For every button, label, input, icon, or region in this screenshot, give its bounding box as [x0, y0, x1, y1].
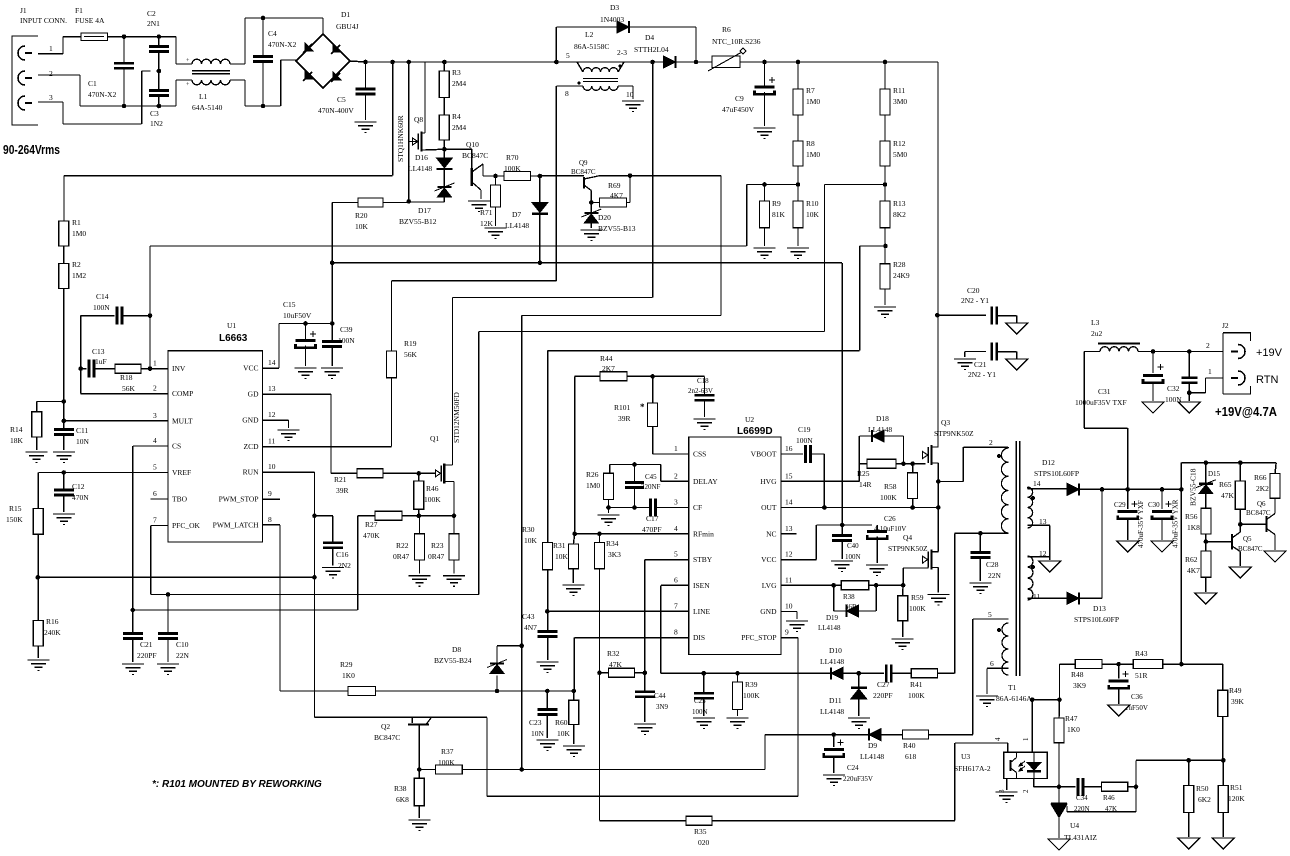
ground: [1178, 838, 1200, 849]
wire VCC U2: [781, 525, 872, 560]
wire GD pin: [263, 394, 332, 473]
inductor L2: [556, 30, 656, 99]
svg-text:ZCD: ZCD: [244, 442, 260, 451]
ground: [1151, 541, 1173, 552]
svg-text:DIS: DIS: [693, 633, 705, 642]
svg-text:R20: R20: [355, 211, 368, 220]
wire CS pin: [130, 446, 357, 612]
svg-text:1: 1: [1022, 737, 1030, 741]
svg-text:R28: R28: [893, 260, 906, 269]
pin TBO stub: [151, 498, 169, 500]
diode D10: [820, 646, 859, 679]
svg-text:39R: 39R: [618, 414, 631, 423]
wire R43 rail: [1102, 662, 1223, 667]
resistor R15: [6, 504, 43, 577]
svg-text:1M2: 1M2: [72, 271, 86, 280]
svg-text:R62: R62: [1185, 555, 1198, 564]
svg-text:2-3: 2-3: [617, 48, 627, 57]
svg-text:470N-X2: 470N-X2: [268, 40, 297, 49]
svg-text:C30: C30: [1148, 501, 1160, 509]
resistor R49: [1218, 664, 1245, 760]
svg-text:L3: L3: [1091, 318, 1100, 327]
wire aux pin5 supply: [929, 619, 1009, 735]
svg-text:1K0: 1K0: [1067, 725, 1080, 734]
svg-text:TBO: TBO: [172, 495, 188, 504]
svg-text:R46: R46: [426, 484, 439, 493]
wire PWM latch drop: [519, 316, 524, 772]
wire ISEN: [661, 585, 830, 675]
svg-text:BC847C: BC847C: [1238, 545, 1263, 553]
capacitor C24: [824, 735, 873, 783]
svg-text:R6: R6: [722, 25, 731, 34]
svg-text:F1: F1: [75, 6, 83, 15]
node VCC rail U1: [279, 321, 335, 326]
svg-text:L6699D: L6699D: [737, 426, 773, 437]
capacitor C17: [642, 499, 689, 535]
ground: [954, 359, 976, 370]
svg-text:1: 1: [153, 359, 157, 368]
svg-text:470N-X2: 470N-X2: [88, 90, 117, 99]
resistor R18: [115, 364, 168, 393]
svg-text:100K: 100K: [743, 691, 760, 700]
svg-text:PFC_OK: PFC_OK: [172, 521, 201, 530]
resistor R70: [489, 153, 540, 181]
ground: [976, 696, 998, 707]
resistor R29: [340, 660, 497, 696]
svg-text:C23: C23: [529, 718, 542, 727]
resistor R50: [1184, 760, 1211, 837]
svg-text:D10: D10: [829, 646, 842, 655]
resistor R8: [793, 115, 820, 185]
svg-text:2: 2: [1206, 341, 1210, 350]
svg-text:R49: R49: [1229, 686, 1242, 695]
diode D11: [820, 671, 867, 716]
svg-text:R25: R25: [857, 469, 870, 478]
resistor R11: [880, 62, 907, 115]
svg-text:R19: R19: [404, 339, 417, 348]
svg-text:3: 3: [49, 93, 53, 102]
ground: [53, 452, 75, 463]
svg-text:VCC: VCC: [243, 364, 258, 373]
resistor R38 lvg: [841, 581, 868, 611]
resistor R38 q2: [394, 770, 424, 819]
svg-text:R56: R56: [1185, 512, 1198, 521]
svg-text:L2: L2: [585, 30, 594, 39]
ground: [848, 718, 870, 729]
resistor R41: [908, 669, 955, 700]
capacitor C29: [1114, 489, 1145, 548]
node Q8 source junction: [442, 147, 472, 152]
svg-text:020: 020: [698, 838, 710, 847]
svg-text:SFH617A-2: SFH617A-2: [954, 764, 991, 773]
svg-text:1M0: 1M0: [586, 481, 600, 490]
svg-text:STPS10L60FP: STPS10L60FP: [1034, 469, 1079, 478]
svg-text:12: 12: [268, 410, 276, 419]
svg-text:C18: C18: [697, 377, 709, 385]
svg-text:GND: GND: [242, 416, 259, 425]
node CS sense line: [402, 514, 454, 519]
ground: [295, 368, 317, 379]
svg-text:24K9: 24K9: [893, 271, 910, 280]
transformer T1 sec top: [1028, 479, 1047, 528]
resistor R34: [595, 534, 622, 821]
svg-text:12K: 12K: [480, 219, 494, 228]
svg-text:BZV55-B13: BZV55-B13: [598, 224, 636, 233]
wire J1 pin3 earth: [38, 71, 151, 124]
svg-text:C16: C16: [336, 550, 349, 559]
svg-text:RTN: RTN: [1256, 374, 1278, 386]
ground: [409, 576, 431, 587]
svg-text:R38: R38: [843, 593, 855, 601]
zener D15: [1189, 463, 1221, 508]
shunt U4 TL431: [1051, 787, 1136, 842]
ground: [1142, 402, 1164, 413]
svg-text:R21: R21: [334, 475, 347, 484]
svg-text:R40: R40: [903, 741, 916, 750]
resistor R3: [439, 62, 466, 98]
svg-text:Q6: Q6: [1257, 500, 1266, 508]
svg-text:C5: C5: [337, 95, 346, 104]
svg-text:220PF: 220PF: [873, 691, 893, 700]
svg-text:4-10uF10V: 4-10uF10V: [874, 525, 906, 533]
svg-text:64A-5140: 64A-5140: [192, 103, 223, 112]
wire COMP feedback: [81, 316, 168, 394]
svg-text:T1: T1: [1008, 683, 1017, 692]
transistor Q10: [462, 140, 489, 199]
svg-text:47K: 47K: [1221, 491, 1235, 500]
svg-text:39R: 39R: [336, 486, 349, 495]
svg-text:C12: C12: [72, 482, 85, 491]
ground: [1195, 593, 1217, 604]
svg-text:10K: 10K: [355, 222, 369, 231]
svg-text:GBU4J: GBU4J: [336, 22, 359, 31]
wire HVG: [781, 464, 859, 482]
resistor R101: [614, 374, 689, 454]
diode D4: [634, 33, 676, 68]
svg-text:D11: D11: [829, 696, 842, 705]
diode D12: [1028, 458, 1103, 495]
svg-text:C10: C10: [176, 640, 189, 649]
svg-text:R23: R23: [431, 541, 444, 550]
svg-text:R3: R3: [452, 68, 461, 77]
svg-text:0R47: 0R47: [428, 552, 445, 561]
svg-text:10: 10: [268, 462, 276, 471]
svg-text:ISEN: ISEN: [693, 581, 710, 590]
svg-text:INV: INV: [172, 364, 186, 373]
svg-text:470N-400V: 470N-400V: [318, 106, 354, 115]
wire Q1 drain path: [522, 176, 721, 316]
capacitor C36: [1109, 664, 1148, 712]
capacitor C14: [81, 292, 153, 325]
wire primary jog: [938, 447, 1008, 481]
svg-text:D12: D12: [1042, 458, 1055, 467]
svg-text:6: 6: [153, 489, 157, 498]
ground: [27, 660, 49, 671]
svg-text:C36: C36: [1131, 693, 1143, 701]
svg-text:BZV55-B24: BZV55-B24: [434, 656, 472, 665]
wire rail sense drop: [64, 62, 393, 221]
svg-text:LL4148: LL4148: [505, 221, 529, 230]
svg-text:C1: C1: [88, 79, 97, 88]
svg-text:COMP: COMP: [172, 389, 193, 398]
svg-text:LL4148: LL4148: [820, 657, 844, 666]
svg-text:C21: C21: [140, 640, 153, 649]
ground: [598, 515, 620, 526]
resistor R13: [880, 185, 906, 247]
svg-text:11: 11: [785, 575, 792, 584]
wire GND pin U2: [781, 612, 797, 620]
svg-text:14R: 14R: [859, 480, 872, 489]
svg-text:R8: R8: [806, 139, 815, 148]
svg-text:C43: C43: [522, 612, 535, 621]
ground: [1039, 561, 1061, 572]
resistor R22: [393, 516, 425, 574]
svg-text:R9: R9: [772, 199, 781, 208]
wire Q8 bias drop: [407, 62, 412, 204]
capacitor C27: [859, 664, 912, 700]
svg-text:0R47: 0R47: [393, 552, 410, 561]
wire STBY: [643, 560, 689, 692]
svg-text:2: 2: [989, 438, 993, 447]
svg-text:2K2: 2K2: [1256, 484, 1269, 493]
svg-text:C26: C26: [884, 515, 896, 523]
svg-text:100K: 100K: [504, 164, 521, 173]
svg-text:C29: C29: [1114, 501, 1126, 509]
capacitor C44: [635, 692, 669, 722]
ground: [1048, 839, 1070, 850]
svg-text:1uF: 1uF: [95, 357, 107, 366]
transistor Q2: [374, 717, 431, 769]
resistor R10: [793, 185, 820, 247]
svg-text:C20: C20: [967, 286, 980, 295]
capacitor C10 pfc: [158, 595, 190, 663]
svg-text:R43: R43: [1135, 649, 1148, 658]
wire GND pin U1: [263, 420, 289, 428]
svg-text:90-264Vrms: 90-264Vrms: [3, 143, 60, 157]
node main DC rail: [363, 60, 938, 65]
wire Q9 base line: [540, 175, 584, 177]
capacitor C25: [692, 673, 714, 716]
node Q5 base: [1204, 539, 1232, 544]
svg-text:618: 618: [905, 752, 917, 761]
transformer T1 primary: [989, 438, 1009, 533]
svg-text:1M0: 1M0: [806, 97, 820, 106]
capacitor C28: [970, 531, 1001, 581]
capacitor C3: [149, 71, 169, 128]
svg-text:PWM_LATCH: PWM_LATCH: [213, 520, 259, 529]
svg-text:C17: C17: [646, 514, 659, 523]
svg-text:R4: R4: [452, 112, 461, 121]
transistor Q8: [396, 62, 444, 162]
svg-text:1K0: 1K0: [342, 671, 355, 680]
svg-text:BC847C: BC847C: [462, 151, 488, 160]
capacitor C2: [147, 9, 169, 73]
connector J2: [1222, 321, 1251, 394]
ground: [485, 228, 507, 239]
wire ZCD: [263, 378, 392, 447]
svg-text:C45: C45: [645, 473, 657, 481]
wire R29 line: [280, 690, 348, 692]
svg-text:220NF: 220NF: [641, 483, 661, 491]
wire output rail: [1138, 341, 1223, 354]
svg-text:47K: 47K: [609, 660, 623, 669]
capacitor C20: [938, 286, 1017, 325]
wire R20 node: [409, 201, 445, 203]
svg-text:R14: R14: [10, 425, 23, 434]
svg-text:STBY: STBY: [693, 555, 713, 564]
svg-text:STPS10L60FP: STPS10L60FP: [1074, 615, 1119, 624]
svg-text:R31: R31: [553, 541, 566, 550]
svg-text:CF: CF: [693, 503, 702, 512]
diode D9: [860, 729, 903, 761]
svg-text:100N: 100N: [93, 303, 110, 312]
svg-text:10N: 10N: [531, 729, 545, 738]
wire rail to Q3 drain: [935, 62, 940, 447]
svg-text:56K: 56K: [404, 350, 418, 359]
svg-text:C21: C21: [974, 360, 987, 369]
svg-text:C9: C9: [735, 94, 744, 103]
wire OUT: [781, 505, 941, 510]
svg-text:R38: R38: [394, 784, 407, 793]
svg-text:2N2 - Y1: 2N2 - Y1: [968, 370, 996, 379]
svg-text:81K: 81K: [772, 210, 786, 219]
transformer T1 sec bot: [1028, 549, 1047, 601]
svg-text:R10: R10: [806, 199, 819, 208]
svg-text:51R: 51R: [1135, 671, 1148, 680]
svg-text:U1: U1: [227, 321, 236, 330]
svg-text:R66: R66: [1254, 473, 1267, 482]
wire sec centertap: [1028, 525, 1050, 560]
svg-text:C2: C2: [147, 9, 156, 18]
capacitor C26: [867, 515, 906, 563]
svg-text:R39: R39: [745, 680, 758, 689]
svg-text:10uF50V: 10uF50V: [283, 311, 312, 320]
svg-text:MULT: MULT: [172, 416, 193, 425]
svg-text:R65: R65: [1219, 480, 1232, 489]
resistor R19: [387, 281, 557, 378]
resistor R59: [898, 585, 927, 637]
svg-text:D16: D16: [415, 153, 428, 162]
capacitor C39: [322, 324, 355, 367]
svg-text:R26: R26: [586, 470, 599, 479]
svg-text:Q5: Q5: [1243, 535, 1252, 543]
svg-text:RUN: RUN: [243, 468, 259, 477]
svg-text:8: 8: [268, 515, 272, 524]
svg-text:22N: 22N: [988, 571, 1002, 580]
wire Q9 collector line: [600, 173, 721, 178]
svg-text:4: 4: [674, 524, 678, 533]
ground: [122, 664, 144, 675]
svg-text:DELAY: DELAY: [693, 477, 718, 486]
svg-text:15: 15: [785, 471, 793, 480]
ground: [1178, 402, 1200, 413]
svg-text:4K7: 4K7: [610, 191, 623, 200]
svg-text:1K8: 1K8: [1187, 523, 1200, 532]
capacitor C45: [625, 465, 661, 510]
wire Q1 drain: [453, 62, 653, 465]
svg-text:2N1: 2N1: [147, 19, 160, 28]
svg-text:R71: R71: [480, 208, 493, 217]
ground: [1108, 705, 1130, 716]
ground: [754, 128, 776, 139]
resistor R51: [1218, 760, 1245, 837]
capacitor C12: [54, 473, 89, 513]
wire R8 tap: [747, 182, 801, 246]
svg-text:C44: C44: [654, 692, 666, 700]
svg-text:C34: C34: [1076, 794, 1088, 802]
diode D13: [1028, 489, 1120, 624]
svg-text:D9: D9: [868, 741, 877, 750]
wire clamp rail: [1181, 460, 1276, 489]
svg-text:R7: R7: [806, 86, 815, 95]
svg-text:2M4: 2M4: [452, 79, 466, 88]
ground: [754, 248, 776, 259]
svg-text:1N2: 1N2: [150, 119, 163, 128]
svg-text:16: 16: [785, 444, 793, 453]
resistor R16: [33, 577, 61, 658]
svg-text:4K7: 4K7: [1187, 566, 1200, 575]
pin PFC_STOP stub 9: [0, 0, 1, 1]
svg-text:CS: CS: [172, 442, 181, 451]
diode D19: [818, 585, 876, 632]
resistor R2: [59, 246, 87, 421]
ground: [278, 430, 300, 441]
svg-text:R44: R44: [600, 354, 613, 363]
svg-text:2: 2: [153, 384, 157, 393]
ground: [562, 585, 584, 596]
svg-text:C31: C31: [1098, 387, 1111, 396]
svg-text:Q10: Q10: [466, 140, 479, 149]
ground: [53, 514, 75, 525]
resistor R66: [1254, 463, 1280, 514]
resistor R21: [331, 469, 419, 495]
svg-text:LL4148: LL4148: [820, 707, 844, 716]
resistor R47: [1054, 700, 1080, 787]
svg-text:22N: 22N: [176, 651, 190, 660]
svg-text:D7: D7: [512, 210, 521, 219]
ground: [694, 419, 716, 430]
resistor R9: [760, 185, 786, 247]
pin NC stub: [781, 533, 797, 535]
node FB line: [417, 767, 436, 772]
resistor R43: [1133, 649, 1163, 680]
svg-text:STP9NK50Z: STP9NK50Z: [888, 544, 928, 553]
svg-text:2K7: 2K7: [602, 364, 615, 373]
capacitor C18: [653, 376, 715, 417]
svg-text:1: 1: [1208, 367, 1212, 376]
svg-text:14: 14: [268, 358, 276, 367]
wire to L3: [1084, 352, 1128, 490]
capacitor C40: [832, 523, 860, 561]
ground: [786, 621, 808, 632]
svg-text:D4: D4: [645, 33, 654, 42]
zener D8: [434, 645, 522, 693]
svg-text:D20: D20: [598, 213, 611, 222]
ground: [443, 576, 465, 587]
svg-text:100K: 100K: [880, 493, 897, 502]
wire L1 right top: [230, 16, 323, 64]
capacitor C19: [781, 425, 824, 508]
wire RUN pin: [263, 472, 317, 717]
svg-text:C27: C27: [877, 680, 890, 689]
svg-text:150K: 150K: [6, 515, 23, 524]
resistor R12: [880, 115, 907, 185]
svg-text:2n2-63V: 2n2-63V: [688, 387, 713, 395]
svg-text:5: 5: [566, 51, 570, 60]
wire delay gnd rail: [609, 508, 651, 514]
capacitor C11: [54, 419, 90, 451]
svg-text:LL4148: LL4148: [818, 624, 841, 632]
